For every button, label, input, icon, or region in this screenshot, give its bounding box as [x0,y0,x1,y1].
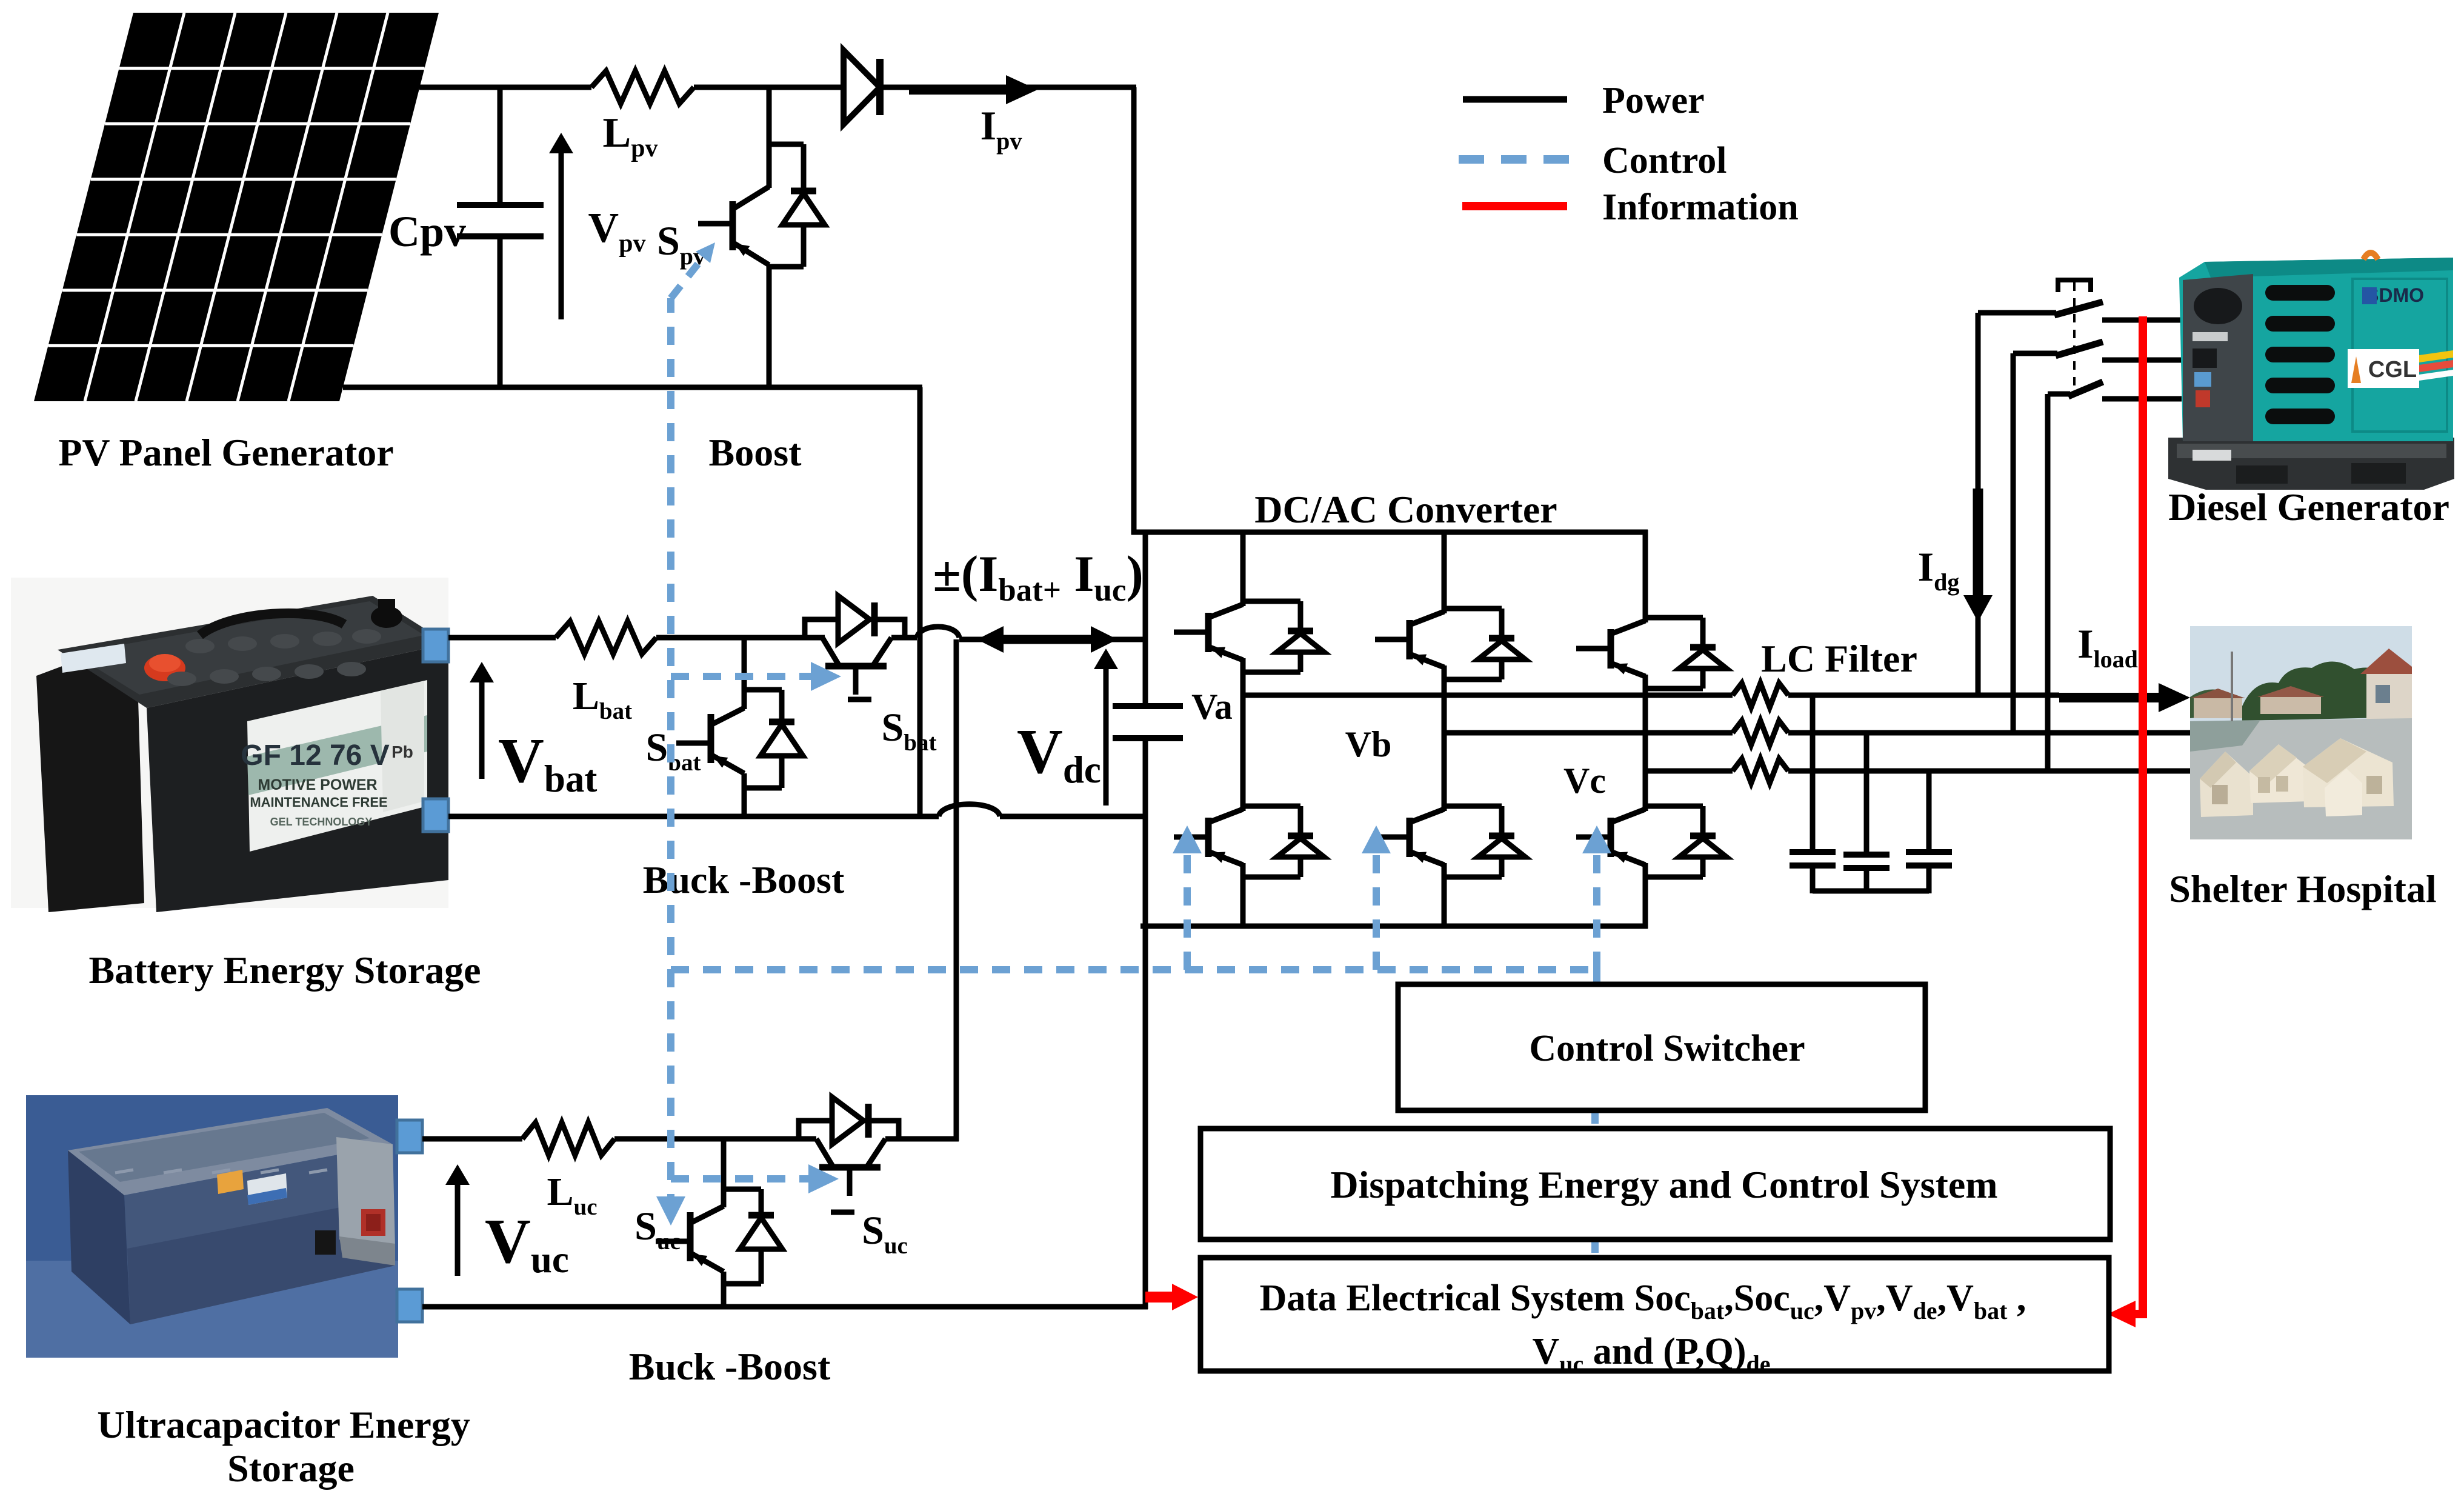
capacitor Cc [1926,771,1932,852]
wire: phase Vc [1645,769,1733,774]
arrow Ipv (thick) [909,85,1007,95]
ultracapacitor energy storage photo [26,1095,398,1358]
box: Control Switcher [1398,984,1925,1110]
igbt Sb2 (bottom leg b) [1444,804,1502,809]
battery energy storage photo [11,578,448,912]
inductor Lb [1733,721,1788,745]
arrow Vpv [559,151,564,319]
legend: Power line [1463,96,1567,103]
inductor Lbat [556,621,656,654]
control link: switcher to dispatching [1591,1112,1599,1130]
wire + hop over PV rail [891,635,917,641]
control link: dispatching to data [1591,1241,1599,1259]
transistor S-bar-uc (upper) with diode [816,1139,833,1166]
wire: UC top [422,1136,522,1142]
control arrow to Sc2 [1593,852,1600,970]
svg-text:Diesel Generator: Diesel Generator [2168,485,2449,529]
wire: DC+ top bus [1131,530,1648,535]
svg-text:MOTIVE POWER: MOTIVE POWER [258,776,377,793]
riser from UC converter [954,639,959,1141]
svg-text:Boost: Boost [709,431,802,474]
svg-text:Dispatching Energy and Control: Dispatching Energy and Control System [1330,1163,1997,1206]
svg-text:Va: Va [1191,687,1233,727]
control arrow to S-bar-uc [671,1175,808,1182]
capacitor Vdc [1143,532,1148,706]
UC terminal pad + [397,1120,422,1153]
control arrow to S-bar-bat [671,673,811,680]
inductor La [1733,683,1788,707]
wire Ipv to DC bus [880,85,1136,90]
legend: Information line [1462,202,1567,210]
arrow Vdc [1104,667,1109,806]
switch phase 3 [2048,392,2070,397]
svg-text:Shelter Hospital: Shelter Hospital [2169,867,2437,910]
box: Data Electrical System [1200,1258,2109,1371]
wire to DC node [959,637,1145,642]
wire [656,635,825,641]
svg-text:Ultracapacitor Energy: Ultracapacitor Energy [97,1403,470,1446]
wire: battery bottom with hop over UC riser [448,814,939,819]
svg-text:Storage: Storage [227,1447,355,1490]
capacitor Cb [1864,733,1870,855]
control line: main horizontal [671,966,1598,973]
svg-text:LC Filter: LC Filter [1761,637,1917,680]
svg-text:Data Electrical System Socbat,: Data Electrical System Socbat,Socuc,Vpv,… [1260,1278,2026,1324]
igbt Sc2 (bottom leg c) [1645,804,1703,809]
svg-text:Vc: Vc [1563,761,1606,801]
igbt Sc1 (top leg c) [1643,530,1648,618]
legend: Control line [1459,155,1569,164]
wire: PV bottom rail [343,385,922,390]
information arrow from DC bus to data box (left) [1145,1292,1174,1303]
transistor Spv [698,87,825,390]
svg-text:Control Switcher: Control Switcher [1529,1028,1805,1069]
svg-text:DC/AC Converter: DC/AC Converter [1254,488,1557,531]
diode D pv (series) [844,50,880,124]
inductor Lpv [591,71,694,104]
wire: PV top [419,85,591,90]
gang bar (dashed) with bracket [2058,280,2091,292]
box: Dispatching Energy and Control System [1200,1129,2110,1239]
svg-text:Pb: Pb [391,742,413,761]
information arrow into data box (right) [2131,1310,2145,1318]
arrow Vbat [479,680,485,779]
control arrow to Sb2 [1373,852,1380,970]
capacitor Ca [1810,695,1816,852]
control arrow to Spv [671,264,698,298]
switch phase 1 [1978,310,2056,316]
svg-text:CGL: CGL [2368,357,2417,382]
PV panel generator [34,13,439,401]
arrow Vuc [455,1182,461,1276]
svg-text:Power: Power [1602,80,1705,121]
svg-text:Buck -Boost: Buck -Boost [629,1345,831,1388]
svg-text:PV Panel Generator: PV Panel Generator [58,431,393,474]
wire: phase Vb [1444,730,1733,736]
inductor Lc [1733,759,1788,783]
svg-text:GEL TECHNOLOGY: GEL TECHNOLOGY [270,816,373,828]
battery terminal pad - [423,799,448,832]
control link to Control Switcher [1593,970,1600,986]
svg-text:MAINTENANCE FREE: MAINTENANCE FREE [250,795,387,810]
svg-text:Control: Control [1602,140,1727,181]
svg-text:Cpv: Cpv [388,207,466,256]
wire [614,1136,816,1142]
diesel generator photo [2168,253,2454,490]
transistor Sbat (lower) [676,638,803,819]
control arrow to Suc (down) [656,1196,685,1226]
arrow +-(Ibat+Iuc) double [999,635,1096,644]
igbt Sa1 (top leg a) [1240,530,1246,601]
wire to riser [885,1136,959,1142]
control arrow to Sa2 [1184,852,1191,970]
battery terminal pad + [423,629,448,662]
wire: battery top [448,635,556,641]
information line (red, vertical) [2139,316,2147,1318]
svg-text:Battery Energy Storage: Battery Energy Storage [89,949,481,992]
arrow Iload (thick) [2059,693,2162,702]
control line: main vertical [667,298,674,1212]
wire: DC- bottom bus [1140,924,1648,929]
transistor S-bar-bat (upper) with diode [822,638,839,665]
igbt Sb1 (top leg b) [1442,530,1447,609]
svg-text:Information: Information [1602,187,1799,228]
igbt Sa2 (bottom leg a) [1243,804,1300,809]
capacitor Cpv [498,85,503,205]
shelter hospital photo [2190,626,2412,839]
svg-text:GF 12 76 V: GF 12 76 V [241,739,389,772]
transistor Suc (lower) [656,1139,782,1309]
inductor Luc [522,1122,614,1155]
wire: capacitor common [1813,889,1929,894]
UC terminal pad - [397,1289,422,1322]
wire: phase Va [1243,693,1733,698]
arrow Idg (thick) [1973,489,1983,601]
svg-text:Vb: Vb [1345,724,1392,764]
wire: UC bottom [422,1304,1148,1310]
switch phase 2 [2013,351,2057,356]
wire [694,85,844,90]
